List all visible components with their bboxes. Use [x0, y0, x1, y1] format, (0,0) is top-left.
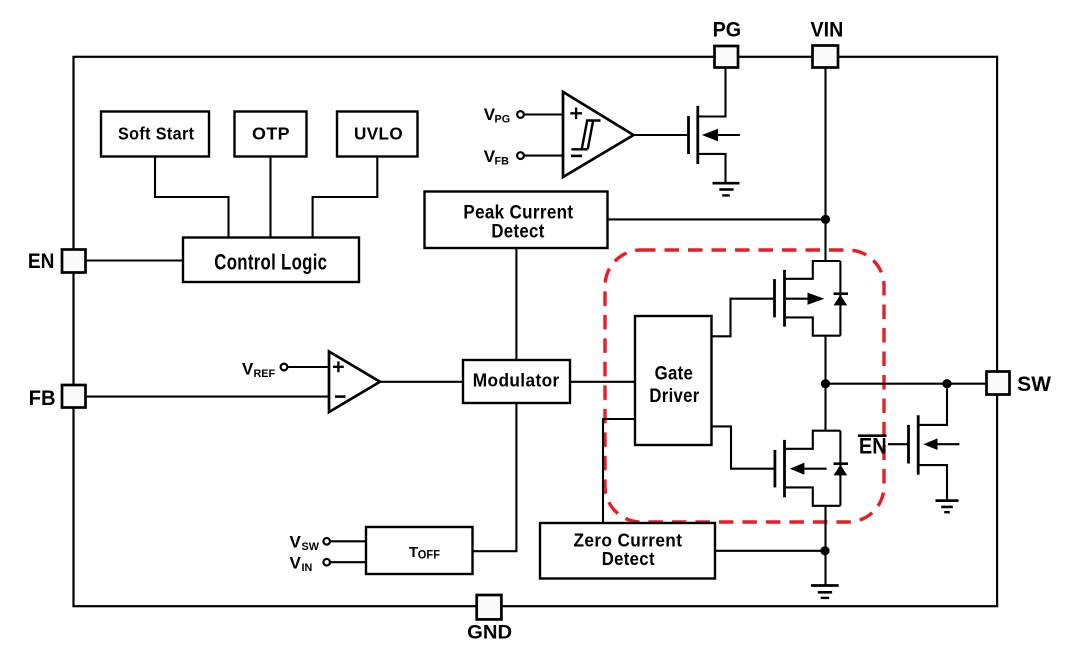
- wire EN pin to Control Logic: [85, 259, 183, 261]
- node VIN input terminal: [290, 553, 367, 574]
- svg-text:SW: SW: [302, 541, 320, 553]
- node ENbar label: [858, 434, 909, 459]
- node VPG input terminal: [484, 105, 563, 126]
- wire Zero Current Detect to junction: [715, 550, 825, 552]
- wire Gate Driver to high-side FET gate: [712, 299, 775, 337]
- wire VIN to TOFF: [330, 561, 366, 563]
- svg-text:Driver: Driver: [649, 385, 699, 407]
- node SW junction: [821, 379, 830, 388]
- body diode of Q2: [834, 261, 849, 336]
- svg-text:Detect: Detect: [491, 221, 544, 243]
- node VFB input terminal: [484, 147, 563, 168]
- svg-text:IN: IN: [302, 562, 313, 574]
- wire Peak Current Detect to VIN rail: [608, 218, 826, 220]
- wire Gate Driver to low-side FET gate: [712, 426, 775, 468]
- svg-text:V: V: [290, 532, 302, 551]
- pin EN: [28, 250, 86, 274]
- wire Modulator to TOFF: [473, 403, 517, 551]
- node junction VIN rail / peak detect: [821, 215, 830, 224]
- block UVLO: [337, 112, 418, 157]
- svg-text:VIN: VIN: [811, 19, 844, 42]
- pin VIN: [811, 19, 844, 68]
- wire VSW to TOFF: [330, 540, 366, 542]
- transistor Q1 (PG output FET): [689, 68, 740, 183]
- svg-text:Control Logic: Control Logic: [214, 249, 327, 274]
- wire ENbar to Q4 gate: [888, 443, 909, 445]
- node junction SW / EN FET: [942, 379, 951, 388]
- wire OTP to Control Logic: [269, 157, 271, 238]
- ground below Q1: [713, 183, 740, 195]
- svg-text:GND: GND: [467, 621, 512, 643]
- svg-text:PG: PG: [495, 113, 511, 125]
- svg-text:Modulator: Modulator: [473, 370, 560, 390]
- node VREF input terminal: [242, 359, 329, 380]
- wire Gate Driver to Zero Current Detect: [603, 419, 635, 523]
- transistor Q2 (high-side power FET): [775, 261, 841, 336]
- wire Soft Start to Control Logic: [155, 157, 229, 238]
- block Modulator: [463, 360, 570, 403]
- svg-text:FB: FB: [495, 156, 510, 168]
- svg-text:EN: EN: [859, 434, 887, 459]
- svg-text:OFF: OFF: [418, 547, 440, 561]
- svg-text:EN: EN: [28, 250, 55, 273]
- wire UVLO to Control Logic: [313, 157, 378, 238]
- svg-text:Detect: Detect: [602, 548, 655, 569]
- red dashed power-stage outline: [605, 250, 884, 522]
- block TOFF: [366, 527, 473, 574]
- ground below Q4: [936, 501, 959, 513]
- op-amp PG comparator with hysteresis: [563, 92, 634, 177]
- transistor Q4 (ENbar disconnect FET): [909, 388, 960, 499]
- svg-text:V: V: [242, 359, 254, 378]
- svg-text:V: V: [290, 553, 302, 572]
- wire FB pin to error amp inverting input: [85, 396, 329, 398]
- block Soft Start: [101, 112, 209, 157]
- block OTP: [235, 112, 307, 157]
- svg-text:Soft Start: Soft Start: [118, 123, 195, 143]
- block Control Logic: [183, 238, 359, 283]
- pin GND: [467, 595, 512, 643]
- wire comparator output to Q1 gate: [634, 134, 689, 136]
- block Gate Driver: [635, 316, 712, 445]
- svg-text:SW: SW: [1017, 373, 1051, 396]
- svg-text:REF: REF: [254, 368, 276, 380]
- svg-text:UVLO: UVLO: [354, 123, 403, 143]
- wire Modulator to Gate Driver: [570, 381, 635, 383]
- wire SW rail from Q2 to SW node: [824, 336, 826, 431]
- block Zero Current Detect: [540, 523, 715, 579]
- wire VIN rail: [824, 68, 826, 262]
- wire VPG to comparator: [524, 113, 563, 115]
- body diode of Q3: [834, 431, 849, 506]
- node junction zero current / ground: [820, 546, 829, 555]
- pin FB: [29, 385, 86, 410]
- op-amp error amplifier: [329, 352, 380, 413]
- svg-text:Gate: Gate: [655, 363, 694, 385]
- wire VFB to comparator: [524, 155, 563, 157]
- wire VREF to error amp: [288, 366, 330, 368]
- transistor Q3 (low-side power FET): [775, 431, 841, 506]
- node VSW input terminal: [290, 532, 367, 553]
- wire Q3 source to ground: [824, 506, 826, 585]
- svg-text:FB: FB: [29, 387, 56, 410]
- wire error amp to Modulator: [380, 381, 463, 383]
- wire Peak Current Detect to Modulator: [515, 248, 517, 360]
- wire SW node to SW pin: [826, 383, 987, 385]
- IC outer boundary: [74, 57, 998, 606]
- svg-text:OTP: OTP: [252, 123, 290, 143]
- svg-text:PG: PG: [713, 19, 742, 42]
- pin SW: [987, 372, 1052, 397]
- block Peak Current Detect: [425, 192, 608, 249]
- ground below Q3: [811, 586, 839, 598]
- pin PG: [713, 19, 742, 68]
